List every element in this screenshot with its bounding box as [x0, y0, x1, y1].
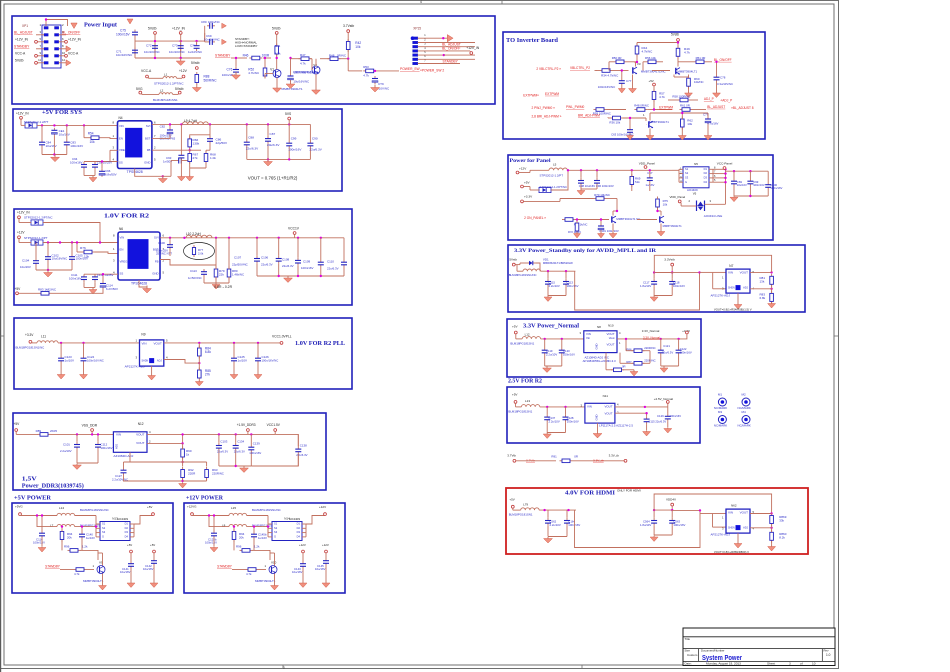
svg-text:220R: 220R: [188, 472, 196, 476]
wire n7 top: [654, 255, 771, 272]
svg-text:0R: 0R: [622, 365, 626, 369]
junction r52: [264, 57, 266, 59]
svg-text:Power for Panel: Power for Panel: [510, 158, 551, 164]
wire n11 gnd: [597, 423, 599, 432]
junction c81: [289, 57, 291, 59]
offpage arrow C69: [222, 39, 227, 44]
wire ('C143', 'C145')a: [302, 553, 304, 561]
wire l11 in: [31, 342, 33, 343]
junction r2b: [180, 57, 182, 59]
wire c81: [290, 58, 292, 74]
resistor R80: [227, 267, 231, 280]
capacitor C87: [265, 136, 271, 144]
wire c101 g: [600, 231, 602, 234]
inductor L8: [229, 524, 247, 526]
wire r83 b3: [18, 292, 38, 294]
svg-text:22u/6.3V: 22u/6.3V: [309, 148, 322, 152]
capacitor C100: [167, 242, 173, 250]
wire vcc1v: [294, 234, 296, 237]
junction og2: [288, 158, 290, 160]
svg-text:C101 100u/16V: C101 100u/16V: [599, 229, 619, 233]
svg-text:AO4409: AO4409: [117, 517, 128, 521]
svg-text:VCC-A: VCC-A: [68, 51, 79, 55]
svg-text:BST: BST: [145, 136, 151, 140]
terminal +2.5V_Normal: [666, 401, 669, 404]
wire c69 branch: [204, 33, 206, 42]
wire fb to ic: [152, 149, 190, 151]
wire tb l: [516, 460, 556, 462]
svg-text:20u/6.3V: 20u/6.3V: [267, 143, 280, 147]
out rail b3: [160, 237, 344, 239]
wire c128: [565, 407, 567, 415]
wire r79: [215, 238, 217, 269]
junction b2 d: [83, 124, 85, 126]
wire standby +5V POWER: [60, 569, 74, 571]
svg-text:N8: N8: [597, 325, 601, 329]
svg-text:D1: D1: [704, 167, 708, 171]
junction adj b4: [198, 362, 200, 364]
ground power input mid: [176, 58, 185, 66]
svg-text:FB: FB: [155, 259, 159, 263]
ground c77g: [618, 87, 625, 94]
svg-text:4.7k/NC: 4.7k/NC: [248, 71, 260, 75]
svg-text:+12V_IN: +12V_IN: [17, 210, 30, 214]
terminal VSS_DDR: [91, 429, 94, 432]
terminal +3.3V b4: [29, 340, 32, 343]
svg-text:GND: GND: [152, 272, 158, 276]
capacitor C83: [64, 140, 70, 148]
wire c104b: [35, 243, 37, 259]
titleblock col rev: [821, 649, 823, 662]
wire standby +12V POWER: [232, 569, 246, 571]
junction r76: [76, 241, 78, 243]
svg-text:2 VBLCTRL-P2 »: 2 VBLCTRL-P2 »: [536, 67, 561, 71]
svg-text:+12V POWER: +12V POWER: [186, 496, 224, 502]
svg-text:10u/16V: 10u/16V: [315, 567, 326, 571]
svg-text:10k: 10k: [355, 45, 361, 49]
svg-text:10n/10V/NC: 10n/10V/NC: [144, 50, 160, 54]
svg-text:STANDBY: STANDBY: [14, 44, 30, 48]
junction xp15 p5: [443, 54, 445, 56]
svg-text:5Vstb: 5Vstb: [671, 32, 679, 36]
wire XP1 left pin 5: [36, 41, 44, 43]
wire C103 b5: [218, 434, 220, 442]
junction +12V POWER a: [208, 514, 210, 516]
ic N5 AO4409: [679, 162, 713, 188]
wire c99p: [749, 171, 751, 178]
wire rail to n62: [672, 509, 700, 511]
svg-text:VIN: VIN: [728, 511, 733, 515]
svg-text:C121: C121: [663, 344, 670, 348]
wire c118: [671, 273, 673, 279]
wire ic out up: [134, 516, 153, 525]
wire c124: [83, 343, 85, 356]
svg-text:VOUT: VOUT: [740, 271, 749, 275]
transistor V2: [312, 66, 320, 74]
svg-text:100n/16V: 100n/16V: [249, 451, 261, 455]
ground v1: [273, 85, 282, 93]
wire xp15 p7: [418, 63, 460, 65]
svg-text:6.8k: 6.8k: [760, 296, 766, 300]
svg-text:BLM18PG181SN1: BLM18PG181SN1: [153, 98, 178, 102]
ground b11 fb: [630, 371, 638, 376]
wire pnl gnd rail: [581, 188, 597, 190]
capacitor C117 b10: [651, 279, 657, 287]
svg-text:+12V_IN: +12V_IN: [68, 37, 82, 41]
ground b10 mid: [650, 296, 658, 302]
junction inv top: [677, 41, 679, 43]
junction r1b: [180, 40, 182, 42]
svg-text:+5V POWER: +5V POWER: [14, 496, 52, 502]
resistor R59 inv: [594, 108, 607, 112]
resistor R98 +12V POWER: [246, 568, 259, 572]
block DDR3 border: [13, 413, 326, 490]
svg-text:1.0: 1.0: [826, 653, 831, 657]
inductor L13: [521, 405, 539, 407]
wire b11 gr: [545, 365, 562, 367]
svg-text:100n/16V: 100n/16V: [567, 419, 579, 423]
capacitor C122 b11: [676, 348, 682, 356]
wire c111 gnd: [83, 282, 85, 287]
wire l11 out: [58, 342, 140, 344]
wire fb link: [190, 149, 201, 151]
svg-text:+5V: +5V: [15, 287, 22, 291]
wire C90: [309, 124, 311, 140]
ground c123: [57, 373, 65, 379]
capacitor C126: [255, 356, 261, 364]
capacitor C111: [81, 274, 87, 282]
svg-text:Custom: Custom: [687, 653, 698, 657]
wire v4 c: [677, 57, 679, 67]
wire b12 t: [667, 403, 669, 407]
wire l79 out: [539, 509, 576, 511]
svg-text:PWL_PWM0: PWL_PWM0: [566, 105, 584, 109]
junction hdmi b: [567, 509, 569, 511]
junction o2: [180, 123, 182, 125]
capacitor C112: [92, 274, 98, 282]
capacitor C562: [545, 518, 551, 526]
terminal +12V b3: [18, 236, 21, 239]
block 33vn border: [507, 319, 701, 377]
polar cap C114: [100, 281, 106, 289]
capacitor ('C141', 'C142')b: [151, 558, 157, 566]
terminal +3.3V panel: [521, 200, 524, 203]
sheet zone tick right: [834, 335, 839, 337]
block panel border: [508, 155, 773, 240]
svg-text:10n/16V/NC: 10n/16V/NC: [204, 37, 220, 41]
svg-text:1u/10V: 1u/10V: [65, 359, 75, 363]
wire n7 out: [750, 271, 772, 273]
capacitor C119: [542, 348, 548, 356]
wire +12V_IN down: [180, 34, 182, 58]
wire l13 in: [515, 403, 517, 407]
ground b11 in: [543, 367, 552, 373]
wire V10 c: [274, 553, 276, 566]
wire vin rail b2: [37, 124, 118, 126]
ic N6 TPS54628: [118, 227, 160, 285]
terminal +12VG: [191, 513, 194, 516]
svg-text:+1.5V_DDR3: +1.5V_DDR3: [237, 423, 256, 427]
svg-text:5VG: 5VG: [136, 87, 143, 91]
wire XP1 right pin 8: [59, 48, 66, 50]
svg-text:4.7k: 4.7k: [659, 95, 665, 99]
wire C140: [81, 527, 83, 532]
wire r74: [561, 219, 564, 221]
svg-text:C96 100n/16V: C96 100n/16V: [596, 184, 614, 188]
svg-text:L14: L14: [59, 506, 64, 510]
svg-text:220R/NC: 220R/NC: [644, 346, 656, 350]
wire d1 in: [20, 119, 22, 125]
ground b2 ss: [89, 176, 97, 183]
svg-text:LP1117A-2.5 AZ1117H-2.5: LP1117A-2.5 AZ1117H-2.5: [599, 423, 633, 427]
svg-text:VCC-A: VCC-A: [141, 69, 152, 73]
wire r54: [83, 125, 85, 137]
svg-text:10u/16V: 10u/16V: [292, 570, 303, 574]
junction o1: [169, 123, 171, 125]
wire C75 to rail: [134, 38, 136, 59]
svg-text:D3: D3: [704, 176, 708, 180]
sheet zone tick bottom2: [581, 665, 583, 669]
svg-text:VREG: VREG: [120, 259, 128, 263]
wire vreg stub: [110, 149, 118, 151]
terminal 3.7Vtb: [513, 459, 516, 462]
svg-text:ADJ_P: ADJ_P: [704, 97, 714, 101]
svg-text:100n/16V: 100n/16V: [116, 33, 131, 37]
wire 5vstb inv: [677, 41, 679, 48]
svg-text:C82: C82: [160, 125, 166, 129]
svg-text:VIN: VIN: [587, 404, 592, 408]
resistor R52: [263, 66, 267, 79]
svg-text:N4: N4: [119, 116, 123, 120]
svg-text:R89: R89: [36, 429, 42, 433]
svg-text:3.3u/10V/NC: 3.3u/10V/NC: [717, 82, 733, 86]
ground c76: [232, 72, 241, 80]
svg-text:3.3V_tb: 3.3V_tb: [593, 458, 604, 462]
svg-text:0R/NC: 0R/NC: [337, 53, 347, 57]
terminal 5Vstb v1: [275, 32, 278, 35]
ground c126: [254, 373, 262, 379]
sheet zone tick bottom: [282, 665, 284, 669]
wire c86 r68: [209, 144, 211, 150]
svg-text:22u/6.3V: 22u/6.3V: [662, 350, 673, 354]
svg-text:100n/16V: 100n/16V: [33, 540, 45, 544]
svg-text:VIN: VIN: [119, 124, 124, 128]
ground b5 in: [73, 464, 82, 470]
svg-text:2.2u/10V: 2.2u/10V: [550, 523, 561, 527]
svg-text:10: 10: [62, 51, 66, 55]
svg-text:GND: GND: [144, 160, 150, 164]
svg-text:+12V_IN: +12V_IN: [172, 27, 186, 31]
diode D2 b3: [31, 220, 43, 225]
svg-text:3.3V_Normal: 3.3V_Normal: [643, 335, 660, 339]
svg-text:VCC1.5V: VCC1.5V: [267, 423, 281, 427]
wire r62 g: [681, 128, 683, 134]
wire v2 base: [310, 58, 312, 60]
resistor R89 b5: [38, 433, 51, 437]
junction b3 og1: [278, 275, 280, 277]
capacitor C98 panel: [578, 178, 584, 186]
wire r53: [347, 59, 349, 71]
junction b3 o298: [297, 237, 299, 239]
block hdmi border: [506, 488, 808, 554]
polar cap CT9: [372, 76, 378, 84]
junction pnl a: [567, 169, 569, 171]
terminal 5Vstb left: [35, 61, 38, 64]
wire C138 b5: [297, 434, 299, 446]
wire vbl wire: [595, 70, 600, 72]
terminal +12V_IN right: [65, 40, 68, 43]
wire V9 c: [102, 553, 104, 566]
svg-text:C109: C109: [303, 259, 311, 263]
wire n62 top loop: [654, 494, 772, 514]
inductor L5 panel: [549, 168, 567, 170]
capacitor C127 b5: [121, 468, 127, 476]
ground v3: [629, 87, 637, 94]
svg-text:+5V: +5V: [512, 393, 519, 397]
wire b10 long: [575, 271, 700, 310]
terminal +12V c2r: [325, 550, 328, 553]
svg-text:3.3V_tb: 3.3V_tb: [609, 453, 620, 457]
capacitor C109: [318, 260, 324, 268]
wire n12 out: [147, 433, 275, 435]
svg-text:+12V: +12V: [322, 543, 329, 547]
svg-text:3: 3: [789, 661, 791, 665]
svg-text:BLM18PG181SN1: BLM18PG181SN1: [509, 513, 533, 517]
svg-text:100n/NC: 100n/NC: [208, 20, 221, 24]
junction b3 o216: [215, 237, 217, 239]
ground panel in: [577, 189, 585, 195]
svg-text:C134: C134: [237, 440, 244, 444]
junction b10 b: [565, 270, 567, 272]
svg-text:+12V_IN: +12V_IN: [466, 46, 480, 50]
junction +12V POWER e: [253, 525, 255, 527]
wire ('C141', 'C142')a gnd: [130, 569, 132, 581]
svg-text:20k: 20k: [239, 535, 244, 539]
svg-text:Power_DDR3(1039745): Power_DDR3(1039745): [22, 482, 84, 489]
wire c101 b5: [76, 434, 78, 441]
out rail b2: [152, 123, 311, 125]
wire vdd4v down: [671, 506, 673, 510]
svg-text:10u/16V: 10u/16V: [59, 132, 70, 136]
wire d2 in: [18, 219, 20, 223]
ground r83 b10: [768, 303, 776, 308]
svg-text:6.8k: 6.8k: [205, 350, 211, 354]
resistor R93 b5: [205, 467, 209, 480]
capacitor C139 b5: [248, 445, 254, 453]
diode VD1: [526, 261, 536, 265]
svg-text:STANDBY: STANDBY: [443, 59, 459, 63]
svg-text:M4: M4: [742, 410, 746, 414]
junction b12 a: [546, 406, 548, 408]
rail out gnd b3: [257, 275, 344, 277]
XP1 pin numbers: [38, 23, 65, 62]
rail gnd b2: [42, 154, 67, 156]
junction b5 o182.6: [181, 433, 183, 435]
wire r93 b5: [206, 462, 208, 467]
svg-text:+5V: +5V: [150, 543, 155, 547]
capacitor C72: [152, 43, 158, 51]
svg-text:D4: D4: [297, 535, 301, 539]
sheet zone tick left: [1, 335, 5, 337]
svg-text:22p/50V: 22p/50V: [216, 141, 228, 145]
wire c77 g: [621, 85, 623, 88]
resistor R860: [770, 530, 774, 543]
svg-text:4.7u/16V: 4.7u/16V: [707, 122, 718, 126]
resistor R75 panel: [656, 197, 660, 210]
svg-text:SHDN: SHDN: [142, 360, 149, 363]
terminal +12V c1r: [302, 550, 305, 553]
capacitor C129 b12: [665, 414, 671, 422]
terminal +5V c2r: [153, 550, 156, 553]
wire r60: [688, 75, 690, 79]
junction +5V POWER a: [36, 514, 38, 516]
svg-text:G: G: [102, 535, 104, 539]
svg-text:STANDBY: STANDBY: [215, 54, 231, 58]
svg-text:AO3434 LINE: AO3434 LINE: [704, 214, 723, 218]
ground N4: [158, 176, 167, 184]
svg-text:20k: 20k: [67, 535, 72, 539]
connector XP15 pins: [413, 34, 427, 65]
svg-text:2.5V FOR R2: 2.5V FOR R2: [508, 378, 542, 384]
resistor R54: [89, 136, 102, 140]
junction b2 b: [53, 124, 55, 126]
wire c82: [169, 124, 171, 127]
svg-text:G: G: [685, 180, 687, 184]
capacitor C88: [244, 140, 250, 148]
resistor R44 inv: [635, 44, 639, 57]
wire n7 adj: [750, 288, 772, 290]
terminal 3.7Vstb: [347, 30, 350, 33]
svg-text:4.7k/NC: 4.7k/NC: [642, 49, 654, 53]
svg-text:BLM18PG181SN1/NC: BLM18PG181SN1/NC: [16, 346, 45, 350]
svg-text:100n/16V: 100n/16V: [753, 183, 765, 187]
svg-text:10k: 10k: [663, 202, 668, 206]
wire c117: [653, 273, 655, 279]
wire c85 gnd: [180, 161, 182, 176]
svg-text:STPS2012-1.2/PT/NC: STPS2012-1.2/PT/NC: [540, 185, 568, 189]
svg-text:R46: R46: [243, 53, 249, 57]
junction r90 fb: [181, 461, 183, 463]
wire r66 top: [190, 135, 210, 139]
capacitor C77 inv: [619, 78, 625, 86]
wire c76: [235, 58, 237, 67]
wire c93: [171, 160, 176, 162]
wire cluster right up: [204, 26, 206, 41]
svg-text:VOUT: VOUT: [606, 342, 614, 346]
resistor R83 b10: [770, 291, 774, 304]
junction b12 o1: [644, 406, 646, 408]
capacitor C102: [45, 254, 51, 262]
svg-text:D1: D1: [125, 522, 129, 526]
wire R94 +5V POWER: [61, 527, 63, 532]
junction b2 e: [53, 153, 55, 155]
svg-text:L13: L13: [525, 399, 530, 403]
junction pwr sw: [374, 70, 376, 72]
ground ('C143', 'C145')b: [322, 581, 330, 588]
annotation ellipse L10: [184, 243, 215, 260]
junction hdmi d: [671, 509, 673, 511]
wire n9 gnd: [151, 366, 153, 374]
resistor R56 inv: [646, 60, 659, 64]
svg-text:VCC-Panel: VCC-Panel: [717, 162, 733, 166]
ground ct9: [371, 85, 380, 93]
polar cap C101 panel: [598, 224, 604, 232]
offpage arrow right row 6: [66, 60, 71, 66]
svg-text:+3.3V: +3.3V: [524, 195, 533, 199]
capacitor ('C143', 'C145')a: [300, 561, 306, 569]
svg-text:SVI: SVI: [146, 124, 151, 128]
wire r89 out: [51, 433, 114, 435]
